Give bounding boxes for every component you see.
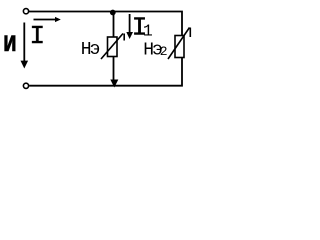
svg-text:I: I <box>30 21 46 51</box>
svg-text:И: И <box>3 32 17 58</box>
svg-text:1: 1 <box>143 22 153 41</box>
svg-text:2: 2 <box>160 44 168 59</box>
svg-text:Нэ: Нэ <box>81 40 100 60</box>
